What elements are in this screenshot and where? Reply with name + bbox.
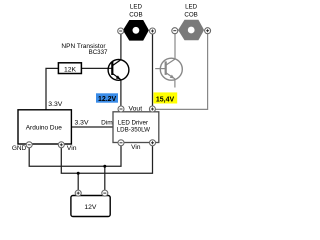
svg-text:LED: LED	[130, 4, 143, 11]
svg-text:15,4V: 15,4V	[156, 96, 175, 103]
svg-text:LDB-350LW: LDB-350LW	[117, 126, 150, 133]
svg-text:Vin: Vin	[131, 144, 141, 151]
svg-text:COB: COB	[129, 11, 142, 18]
svg-text:BC337: BC337	[89, 49, 108, 56]
svg-text:COB: COB	[184, 11, 197, 18]
svg-text:12K: 12K	[64, 66, 77, 73]
svg-text:12V: 12V	[84, 204, 97, 211]
svg-text:12.2V: 12.2V	[98, 96, 117, 103]
svg-text:Arduino Due: Arduino Due	[26, 124, 63, 131]
svg-text:3.3V: 3.3V	[75, 120, 89, 127]
svg-text:Vin: Vin	[67, 145, 77, 152]
svg-text:Vout: Vout	[128, 106, 142, 113]
svg-text:Dim: Dim	[101, 119, 113, 126]
svg-text:3.3V: 3.3V	[48, 101, 62, 108]
svg-text:GND: GND	[12, 145, 27, 152]
svg-text:LED: LED	[185, 4, 198, 11]
